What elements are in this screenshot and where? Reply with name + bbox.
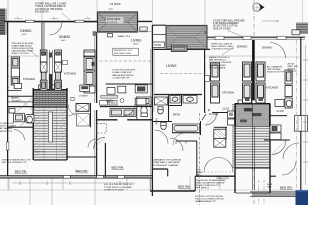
planter box at deck2 bottom [171,46,187,51]
svg-text:2 HR RATED ASSEMBLY: 2 HR RATED ASSEMBLY [213,22,240,25]
tick marks deck2 bottom [190,49,203,51]
dashed drop line bottom centre [199,113,201,205]
svg-text:SMART TILE: SMART TILE [118,35,131,38]
svg-text:GARAGE AREAS TYP: GARAGE AREAS TYP [195,200,217,203]
service wall y84 centre-left [106,83,153,85]
dining divider line left unit [8,55,42,57]
door arc bottom right A [272,140,287,155]
door arc right-centre hall [205,114,217,126]
leader dash right of north [262,20,276,22]
door arc centre-right bedroom [204,158,233,173]
right stair upper landing grey [236,104,270,127]
left unit island box [14,84,21,89]
note small above bottom wall step [196,170,203,177]
closet wall right-centre bedroom [176,140,197,142]
note block top-right [213,20,245,31]
bath wall left unit [8,101,34,103]
shower with X centre-left [76,104,89,112]
svg-text:LIVING: LIVING [131,39,142,43]
grid line vertical A [7,0,9,190]
svg-text:1/2 BATH: 1/2 BATH [79,94,88,97]
wall x42 lower [41,21,43,102]
grid line vertical D [152,0,154,25]
deck1 top-centre hatched [98,12,138,32]
svg-text:AT GARAGE: AT GARAGE [0,127,13,130]
wd boxes far right [270,125,281,140]
svg-text:FAN VENTED TO: FAN VENTED TO [209,59,227,62]
wall under deck2 [152,48,210,50]
closet boxes above left stair [39,85,46,89]
svg-text:STOR: STOR [154,43,161,47]
jamb mark deck2 right [205,31,208,35]
closet boxes above right stair [238,100,245,104]
svg-text:BED RM.: BED RM. [217,175,230,179]
party wall x97 [96,32,98,177]
powder box D [135,98,146,105]
svg-text:DINING: DINING [20,29,32,33]
door arc far right dining [270,43,286,59]
door arcs half bath [68,105,79,116]
left unit diagonal cross marks [17,97,34,112]
door arc left bedroom B [88,139,96,148]
wall x204.6 [204,37,206,113]
foyer wall horizontal [205,112,236,114]
left unit wall y96.2 [8,95,34,97]
note block top-left wall note [35,3,67,14]
kitchen cabinets left unit wall column [11,57,19,85]
right edge dimension ticks [303,45,308,185]
svg-text:RANGE AND DRYER: RANGE AND DRYER [112,74,134,77]
svg-text:BATH: BATH [106,99,113,103]
left unit counter line [8,89,22,91]
wall x90.5 hall [90,103,92,127]
window on top wall [26,20,35,22]
note small right bedroom [267,184,273,189]
svg-text:4'-0: 4'-0 [109,8,114,11]
party wall x152.5 [151,25,153,196]
stair side hatch right [61,92,68,159]
note block far right wall [288,63,299,73]
grid line horizontal bottom [0,189,308,191]
svg-text:AT PART WALL USE 2 LAYER: AT PART WALL USE 2 LAYER [35,3,67,6]
svg-text:BED RM.: BED RM. [15,170,28,174]
svg-text:FOYER: FOYER [12,100,20,102]
wall segment left of deck2 [153,24,167,26]
closet boxes left of right stair [228,111,235,125]
stor box right of deck1 [140,27,147,32]
svg-text:DINING: DINING [237,45,248,49]
svg-text:KITCHEN: KITCHEN [23,77,35,81]
svg-text:ENTRY TYP: ENTRY TYP [0,131,13,133]
note block bottom centre B [195,196,225,203]
svg-text:BATH: BATH [155,118,158,124]
closet with X centre-left [77,114,90,126]
svg-text:ROOF DECK: ROOF DECK [107,19,121,21]
note block bottom centre-left [104,184,134,191]
navy corner block [296,190,309,205]
bath fixtures far right unit [275,100,292,107]
svg-text:9x11: 9x11 [22,34,27,36]
bath fixtures right-centre unit [155,96,200,133]
svg-text:STAIR WALLS 1HR RATED: STAIR WALLS 1HR RATED [153,161,180,164]
window on left wall [6,142,9,150]
party wall x253 thick [252,40,255,122]
faint vertical near right edge top [302,0,304,22]
door arc left bedroom A [94,137,105,149]
svg-text:9x11: 9x11 [61,40,66,42]
laundry box B [118,86,126,93]
leader line top note to wall [62,13,70,20]
svg-text:SCHED FOR SIZES: SCHED FOR SIZES [104,189,124,191]
door leaf right-centre [202,109,210,120]
kitchen wall column far right unit [285,70,292,108]
dimension ticks on left wall [6,56,9,89]
door arc top-left porch [49,22,62,35]
bath wall centre-left unit [100,106,153,108]
shaft square with X right-centre [214,129,226,147]
svg-text:CLOS: CLOS [277,109,284,113]
kitchen party wall stub dark [49,53,53,58]
foyer wall return [225,127,227,140]
dashed closet rect centre-left bedroom [97,123,106,133]
ceiling break dashed line centre-left [95,60,152,62]
svg-text:BED RM.: BED RM. [76,169,89,173]
svg-text:W/ 5/8 TYPE X GYP EA: W/ 5/8 TYPE X GYP EA [213,25,238,28]
powder box C with dark inner [135,85,147,93]
note block left bath leaders [0,123,16,133]
door arc bottom right B [283,143,299,159]
svg-text:W/ RESILIENT CHANNEL: W/ RESILIENT CHANNEL [153,164,179,167]
svg-text:BATH: BATH [173,113,180,117]
svg-text:SIDE TYP: SIDE TYP [288,71,298,73]
left exterior wall [7,21,9,177]
left neighbour deck striped block [0,9,5,36]
svg-text:DINING: DINING [59,35,71,39]
bedroom wall right [264,139,290,141]
grid line vertical C [96,0,98,21]
bedroom divider wall x105.4 [104,143,106,177]
svg-text:KITCHEN: KITCHEN [222,91,234,95]
svg-text:MTD PER CODE: MTD PER CODE [114,53,131,55]
svg-text:1/2 HOUR: 1/2 HOUR [110,4,121,6]
kitchen appliance column left-B [55,50,62,90]
small circle sink [120,99,124,103]
right stair treads [236,127,270,168]
grid stub lines below bottom wall [9,177,300,205]
door arc centre foyer [123,104,135,116]
bottom wall left band [0,176,152,178]
laundry box A [107,88,115,95]
linen cabinet half bath [80,85,90,92]
right stair centre rail [252,104,254,190]
svg-text:SELECTION TYP: SELECTION TYP [267,72,285,74]
svg-text:RAIL: RAIL [267,186,273,189]
kitchen column right-centre unit [211,63,220,103]
svg-text:CLOS: CLOS [223,108,230,111]
svg-text:13x15: 13x15 [133,43,140,45]
door arc hall right-centre lower [170,138,183,151]
svg-text:DINING: DINING [262,46,273,50]
svg-text:SMOKE DET. CLG: SMOKE DET. CLG [114,50,133,52]
closet shelves far right [295,116,308,132]
leader line bath note [20,118,30,126]
svg-text:CARPET FLR: CARPET FLR [33,151,46,154]
niche box on wall x204.6 [205,76,210,82]
leader line from left note to kitchen [27,48,38,57]
soap box [71,97,74,100]
door arc bedroom right-centre [173,133,185,145]
right stair side walls [235,104,270,194]
bath walls right-centre unit [154,94,202,96]
svg-text:FIELD PRIOR TO ANY: FIELD PRIOR TO ANY [211,45,234,48]
svg-text:RUNS TYP U.N.O.: RUNS TYP U.N.O. [12,53,31,55]
north symbol circle [253,3,265,11]
double wall x42 [42,21,44,56]
svg-text:& GAS CONN FOR: & GAS CONN FOR [112,71,131,74]
grid line vertical B [41,0,43,112]
grill box under deck2 [173,47,185,51]
right stair bottom wall [236,167,271,169]
door arc left of party wall lower [155,130,169,144]
window symbols bottom-left wall [63,175,124,178]
note block under living centre boxed [113,48,139,55]
svg-text:MIN 100 CFM AT: MIN 100 CFM AT [209,64,226,67]
svg-text:SIDE OF STUDS: SIDE OF STUDS [213,28,231,30]
dimension dashes above top wall [14,18,91,20]
svg-text:ALL CABINETS: ALL CABINETS [267,65,283,68]
svg-text:PER NFPA 72: PER NFPA 72 [196,186,210,189]
note block right-centre upper [211,42,234,50]
svg-text:TYPE X GYP BD EA SIDE OF: TYPE X GYP BD EA SIDE OF [35,5,66,8]
top-right neighbour deck block [296,23,308,35]
bath fixtures centre-left unit [100,96,152,117]
bedroom divider wall x196.8 [196,141,198,176]
note block centre-left 4 lines [112,70,135,80]
svg-text:NET CLR OPENING TYP: NET CLR OPENING TYP [2,162,27,164]
right stair hatched wall strip left [232,104,234,168]
jamb mark left of wall x97 [93,31,97,36]
kitchen centre rails [49,50,52,90]
svg-text:2x4 STUD W/ 1HR RATED: 2x4 STUD W/ 1HR RATED [35,8,63,11]
svg-text:FOYER: FOYER [209,112,218,116]
svg-text:TYP AT DECK DOORS SEE: TYP AT DECK DOORS SEE [104,186,132,189]
svg-text:BED RM.: BED RM. [280,186,293,190]
right stair lower line [236,192,271,194]
svg-text:LOCATIONS TYP: LOCATIONS TYP [112,76,130,79]
svg-text:LIVING: LIVING [166,64,177,68]
divider line right-centre dining [205,55,252,57]
ceiling break dashed line right-centre [160,73,205,75]
kitchen wall column centre-left unit [84,50,95,93]
grid line vertical F centerline dash-dot [253,0,255,205]
note block right-centre mid [209,56,232,69]
dash-dot vertical right [295,40,297,188]
small box top right [292,30,300,35]
leader line right note to wall [222,47,234,55]
door opening in wall x96.6 [94,103,98,110]
svg-text:KITCHEN: KITCHEN [266,86,278,90]
note block left bedroom [2,159,31,164]
hall wall segment [214,126,227,128]
bottom-right wall and fascia band [250,191,304,193]
left stair treads [33,88,67,160]
small ref box right of column B [63,61,68,65]
note block bottom centre A [196,179,226,189]
svg-text:KITCHEN AREA: KITCHEN AREA [209,66,226,69]
svg-text:VERIFY ALL DIMS IN: VERIFY ALL DIMS IN [211,42,232,45]
note block centre lower-left of shaft [153,159,182,167]
door arc bottom right C [282,161,296,175]
note block left dining [12,43,35,55]
bath fixtures left unit [9,109,34,124]
door under deck1 [108,34,113,37]
bottom wall centre-right steps [152,168,167,170]
kitchen appliance column left-A [40,50,47,90]
grid line vertical E [204,0,206,37]
deck2 centre-right hatched [166,25,207,49]
divider line far right dining [255,56,300,58]
right stair top wall [235,103,270,105]
left neighbour deck edge line [5,9,7,36]
svg-text:CONSTRUCTION TYP: CONSTRUCTION TYP [211,49,234,51]
door gap in foyer wall [206,111,213,114]
note block far right kitchen [267,65,285,73]
svg-text:AT UNIT SEP WALL PROVIDE: AT UNIT SEP WALL PROVIDE [213,20,245,23]
stor box left of deck2 [153,42,165,48]
right exterior wall [300,37,302,190]
svg-text:LAMINATED GYP LAYER AT: LAMINATED GYP LAYER AT [153,159,182,162]
dash-dot verticals bottom right [259,180,265,205]
door arc left bath [14,130,25,141]
left stair dark landing [34,90,68,108]
stair side hatch left [34,92,41,159]
svg-text:BED RM.: BED RM. [112,165,125,169]
svg-text:SLOPE 1/4: SLOPE 1/4 [107,22,118,24]
cabinet top right of dining2 [84,52,95,56]
kitchen columns flanking right party wall [243,62,266,103]
wall y157 centre-left [67,156,97,158]
main top wall right half (double) [200,36,305,38]
closet wall right [270,115,287,117]
svg-text:RANGE W/ HOOD &: RANGE W/ HOOD & [209,56,230,59]
svg-text:BED RM.: BED RM. [178,185,191,189]
svg-text:KITCHEN: KITCHEN [64,72,76,76]
bottom edge dimension ticks [12,181,135,185]
main top wall left half [4,20,152,22]
svg-text:INSULATION: INSULATION [35,10,49,13]
